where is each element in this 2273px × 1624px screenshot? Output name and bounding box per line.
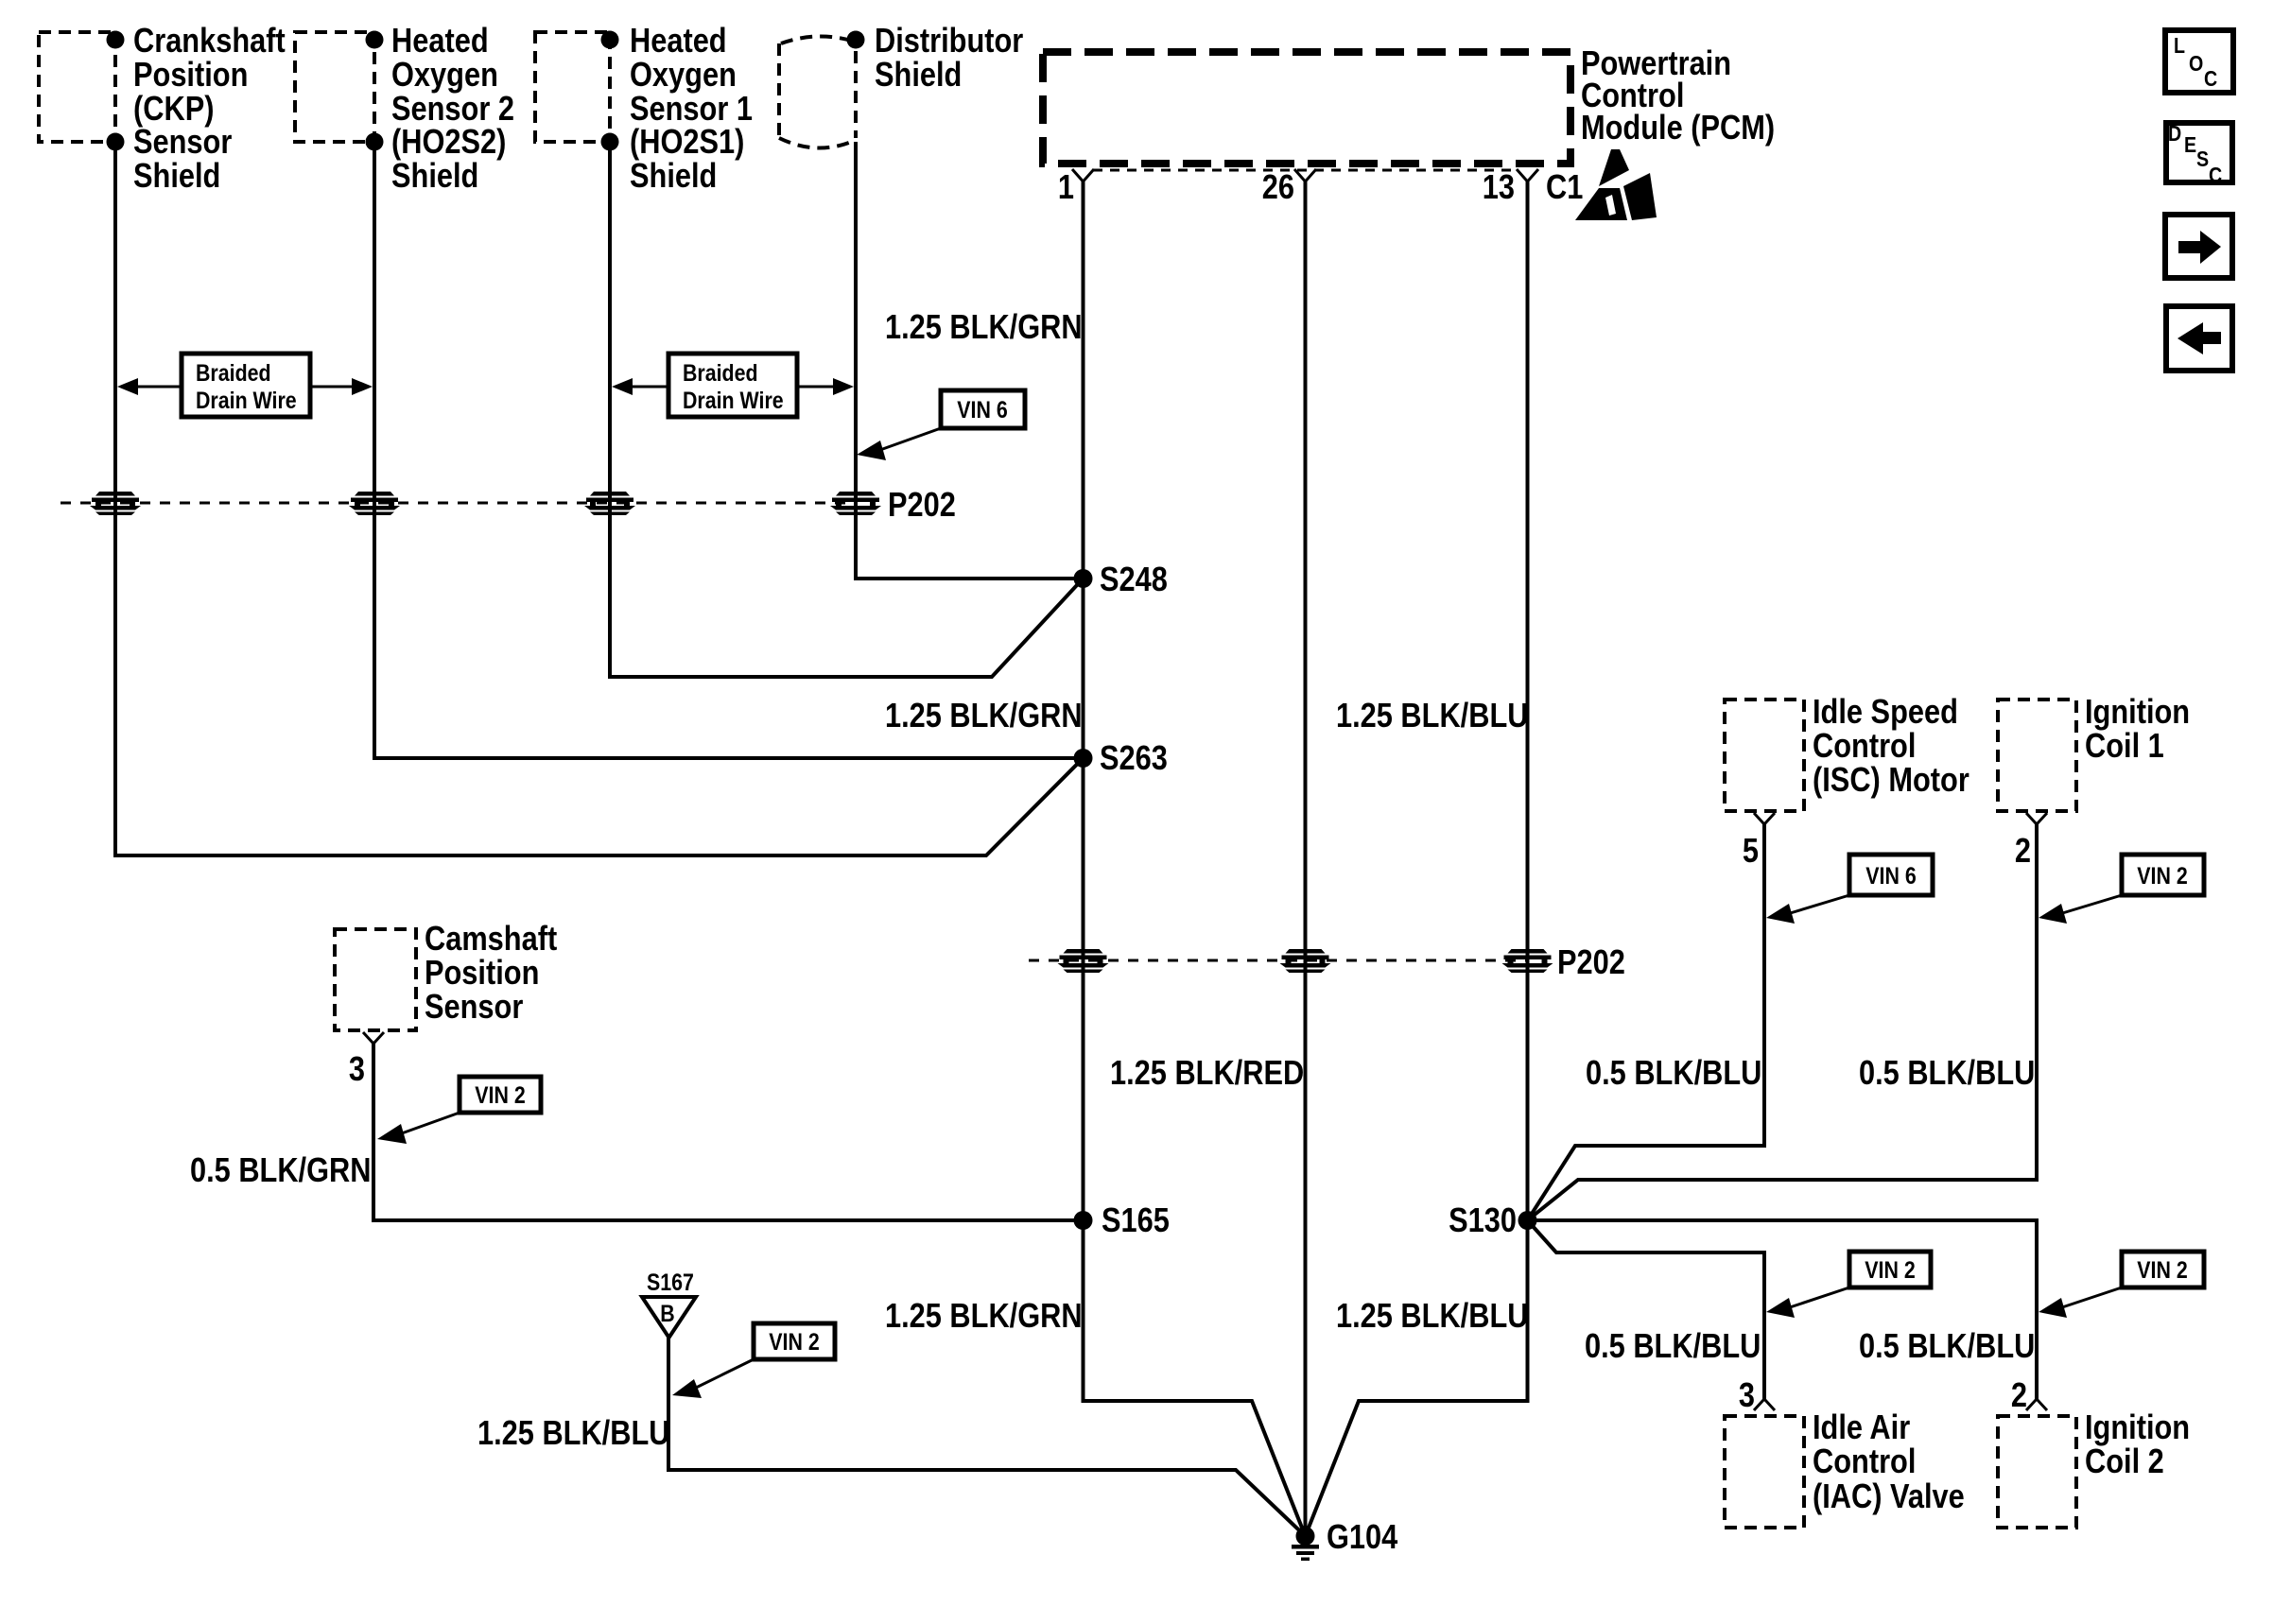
svg-text:1.25 BLK/BLU: 1.25 BLK/BLU xyxy=(1336,698,1528,735)
svg-text:VIN 2: VIN 2 xyxy=(475,1081,525,1108)
splice S248 xyxy=(1074,569,1093,588)
VIN 6 callout at ISC motor wire xyxy=(1766,855,1933,924)
idle speed control (ISC) motor xyxy=(1725,694,1969,811)
P202 pass-through on pin 1 wire xyxy=(1058,949,1109,973)
svg-text:(IAC) Valve: (IAC) Valve xyxy=(1813,1478,1965,1516)
svg-text:S167: S167 xyxy=(647,1269,694,1295)
svg-text:Braided: Braided xyxy=(196,359,271,386)
svg-text:1.25 BLK/GRN: 1.25 BLK/GRN xyxy=(885,309,1083,347)
P202 pass-through on distributor drain xyxy=(830,492,881,515)
svg-text:Idle Air: Idle Air xyxy=(1813,1409,1910,1447)
svg-text:Sensor: Sensor xyxy=(425,989,523,1027)
svg-text:P202: P202 xyxy=(888,487,956,525)
PCM pin 1 connector xyxy=(1072,169,1094,181)
in-line connector P202 row 2 dashed line xyxy=(1029,959,1528,962)
svg-text:Control: Control xyxy=(1813,1443,1916,1481)
svg-text:0.5 BLK/BLU: 0.5 BLK/BLU xyxy=(1586,1055,1761,1093)
svg-text:S165: S165 xyxy=(1102,1202,1170,1240)
wire PCM pin 1 to G104 (1.25 BLK/GRN) xyxy=(1084,181,1306,1536)
heated oxygen sensor 2 (HO2S2) shield xyxy=(295,23,514,196)
svg-text:O: O xyxy=(2189,52,2203,77)
ESD sensitive symbol xyxy=(1575,149,1657,220)
idle air control (IAC) valve xyxy=(1725,1409,1965,1528)
svg-text:C1: C1 xyxy=(1546,169,1583,207)
ignition coil 1 xyxy=(1998,694,2190,811)
svg-text:VIN 2: VIN 2 xyxy=(2137,1256,2187,1283)
VIN 2 callout at ignition coil 2 wire xyxy=(2039,1252,2204,1318)
svg-text:Sensor 2: Sensor 2 xyxy=(391,91,514,129)
svg-text:Idle Speed: Idle Speed xyxy=(1813,694,1958,732)
svg-text:3: 3 xyxy=(349,1051,365,1089)
svg-text:Heated: Heated xyxy=(391,23,489,60)
svg-text:(HO2S1): (HO2S1) xyxy=(630,124,744,162)
PCM pin 26 connector xyxy=(1294,169,1316,181)
svg-text:Position: Position xyxy=(425,955,539,993)
VIN 6 callout at distributor drain xyxy=(857,390,1025,460)
ISC motor pin 5 connector xyxy=(1754,813,1775,824)
svg-text:26: 26 xyxy=(1262,169,1294,207)
camshaft sensor pin 3 connector xyxy=(363,1032,384,1044)
svg-text:Position: Position xyxy=(133,57,248,95)
DESC icon box xyxy=(2166,122,2232,188)
svg-text:1.25 BLK/GRN: 1.25 BLK/GRN xyxy=(885,1298,1083,1336)
svg-text:VIN 2: VIN 2 xyxy=(1865,1256,1915,1283)
svg-text:1: 1 xyxy=(1058,169,1074,207)
ignition coil 2 pin 2 connector xyxy=(2026,1399,2047,1410)
svg-text:1.25 BLK/BLU: 1.25 BLK/BLU xyxy=(477,1415,669,1453)
svg-text:E: E xyxy=(2184,133,2196,158)
svg-text:Oxygen: Oxygen xyxy=(391,57,498,95)
braided drain wire box 1 left arrow xyxy=(117,378,180,395)
IAC valve pin 3 connector xyxy=(1754,1399,1775,1410)
svg-text:0.5 BLK/GRN: 0.5 BLK/GRN xyxy=(190,1152,372,1190)
svg-text:Distributor: Distributor xyxy=(875,23,1023,60)
svg-text:1.25 BLK/RED: 1.25 BLK/RED xyxy=(1110,1055,1304,1093)
wire S130 to ignition coil 1 pin 2 (0.5 BLK/BLU) xyxy=(1528,824,2038,1220)
svg-text:Braided: Braided xyxy=(683,359,758,386)
svg-text:Coil 2: Coil 2 xyxy=(2085,1443,2164,1481)
svg-text:Drain Wire: Drain Wire xyxy=(683,387,784,413)
braided drain wire box 2 right arrow xyxy=(799,378,854,395)
svg-text:Crankshaft: Crankshaft xyxy=(133,23,286,60)
svg-text:1.25 BLK/GRN: 1.25 BLK/GRN xyxy=(885,698,1083,735)
P202 pass-through on HO2S1 drain xyxy=(584,492,635,515)
powertrain control module (PCM) xyxy=(1043,45,1775,164)
P202 pass-through on CKP drain xyxy=(90,492,141,515)
svg-text:(CKP): (CKP) xyxy=(133,91,214,129)
wire HO2S2 shield drain to S263 xyxy=(374,142,1084,758)
wire S130 to ignition coil 2 pin 2 (0.5 BLK/BLU) xyxy=(1528,1220,2038,1399)
wire distributor shield drain to S248 xyxy=(856,142,1084,579)
wire PCM pin 26 to G104 (1.25 BLK/RED) xyxy=(1304,181,1308,1536)
VIN 2 callout at S167 wire xyxy=(672,1323,835,1398)
distributor shield xyxy=(779,23,1023,148)
svg-text:Coil 1: Coil 1 xyxy=(2085,728,2164,766)
svg-text:1.25 BLK/BLU: 1.25 BLK/BLU xyxy=(1336,1298,1528,1336)
wire PCM pin 13 to G104 (1.25 BLK/BLU) xyxy=(1306,181,1528,1536)
VIN 2 callout at ignition coil 1 wire xyxy=(2039,855,2204,924)
braided drain wire callout box 2 xyxy=(668,354,797,417)
svg-text:L: L xyxy=(2174,34,2185,59)
svg-text:VIN 6: VIN 6 xyxy=(1865,862,1917,889)
forward arrow icon box xyxy=(2165,215,2232,278)
ground G104 xyxy=(1292,1519,1398,1561)
svg-text:0.5 BLK/BLU: 0.5 BLK/BLU xyxy=(1859,1328,2035,1366)
svg-text:Shield: Shield xyxy=(630,158,717,196)
svg-text:3: 3 xyxy=(1739,1377,1755,1415)
svg-text:5: 5 xyxy=(1743,833,1759,871)
svg-text:Drain Wire: Drain Wire xyxy=(196,387,297,413)
braided drain wire callout box 1 xyxy=(182,354,310,417)
VIN 2 callout at IAC valve wire xyxy=(1766,1252,1931,1318)
in-line connector P202 row 1 dashed line xyxy=(61,502,856,505)
crankshaft position (CKP) sensor shield xyxy=(39,23,286,196)
svg-text:Sensor 1: Sensor 1 xyxy=(630,91,753,129)
svg-text:VIN 2: VIN 2 xyxy=(769,1328,819,1355)
splice S130 xyxy=(1518,1211,1537,1230)
PCM pin 13 connector xyxy=(1517,169,1538,181)
svg-text:S: S xyxy=(2196,147,2209,172)
svg-text:2: 2 xyxy=(2011,1377,2027,1415)
splice S165 xyxy=(1074,1211,1093,1230)
wire S130 to IAC valve pin 3 (0.5 BLK/BLU) xyxy=(1528,1220,1765,1399)
svg-text:S263: S263 xyxy=(1100,740,1168,778)
svg-text:Oxygen: Oxygen xyxy=(630,57,737,95)
svg-text:0.5 BLK/BLU: 0.5 BLK/BLU xyxy=(1585,1328,1761,1366)
svg-text:S130: S130 xyxy=(1449,1202,1517,1240)
heated oxygen sensor 1 (HO2S1) shield xyxy=(535,23,753,196)
P202 pass-through on pin 26 wire xyxy=(1280,949,1331,973)
svg-text:0.5 BLK/BLU: 0.5 BLK/BLU xyxy=(1859,1055,2035,1093)
svg-text:Heated: Heated xyxy=(630,23,727,60)
ignition coil 1 pin 2 connector xyxy=(2026,813,2047,824)
svg-text:Control: Control xyxy=(1813,728,1916,766)
svg-text:Ignition: Ignition xyxy=(2085,1409,2190,1447)
splice S263 xyxy=(1074,749,1093,768)
svg-text:2: 2 xyxy=(2015,833,2031,871)
svg-text:Module (PCM): Module (PCM) xyxy=(1581,110,1775,147)
wire S167 to G104 (1.25 BLK/BLU) xyxy=(668,1337,1306,1536)
LOC icon box xyxy=(2165,30,2233,93)
braided drain wire box 1 right arrow xyxy=(312,378,373,395)
svg-text:S248: S248 xyxy=(1100,561,1168,599)
splice S167 symbol xyxy=(642,1269,696,1338)
svg-text:Ignition: Ignition xyxy=(2085,694,2190,732)
svg-text:VIN 2: VIN 2 xyxy=(2137,862,2187,889)
svg-text:13: 13 xyxy=(1483,169,1515,207)
wire HO2S1 shield drain to S248 xyxy=(610,142,1084,677)
back arrow icon box xyxy=(2166,306,2232,371)
svg-text:(HO2S2): (HO2S2) xyxy=(391,124,506,162)
svg-text:G104: G104 xyxy=(1327,1519,1398,1557)
wire camshaft sensor pin 3 to S165 (0.5 BLK/GRN) xyxy=(373,1044,1084,1220)
P202 pass-through on pin 13 wire xyxy=(1502,949,1553,973)
P202 pass-through on HO2S2 drain xyxy=(349,492,400,515)
svg-text:D: D xyxy=(2168,122,2181,147)
svg-text:Sensor: Sensor xyxy=(133,124,232,162)
svg-text:P202: P202 xyxy=(1557,944,1625,982)
svg-text:C: C xyxy=(2204,67,2217,92)
camshaft position sensor xyxy=(335,921,557,1030)
wire CKP shield drain to S263 xyxy=(115,142,1084,855)
svg-text:VIN 6: VIN 6 xyxy=(957,396,1008,423)
wire S130 to ISC motor pin 5 (0.5 BLK/BLU) xyxy=(1528,824,1765,1220)
svg-text:Shield: Shield xyxy=(391,158,478,196)
svg-text:C: C xyxy=(2209,164,2222,188)
VIN 2 callout at camshaft sensor wire xyxy=(377,1077,541,1144)
svg-text:Camshaft: Camshaft xyxy=(425,921,557,959)
svg-text:B: B xyxy=(660,1300,674,1326)
PCM connector face C1 dashed line xyxy=(1093,169,1517,172)
svg-text:Shield: Shield xyxy=(875,57,962,95)
ignition coil 2 xyxy=(1998,1409,2190,1528)
braided drain wire box 2 left arrow xyxy=(612,378,667,395)
svg-text:(ISC) Motor: (ISC) Motor xyxy=(1813,762,1969,800)
svg-text:Shield: Shield xyxy=(133,158,220,196)
